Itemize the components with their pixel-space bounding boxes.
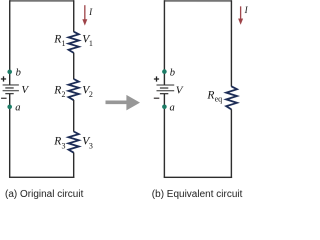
wire: right circuit top [164,0,231,2]
wire: left circuit top [10,0,74,2]
svg-text:I: I [88,7,93,17]
svg-text:R: R [53,34,61,46]
svg-text:2: 2 [62,90,66,99]
wire: right circuit right side below Req [230,109,232,178]
wire: right circuit left side lower [163,94,165,178]
battery minus sign (left) [1,97,7,99]
svg-text:1: 1 [62,39,66,48]
battery V (right): negative short plate upper [160,87,168,89]
wire: left circuit right side between R2 and R3 [73,100,75,132]
node a (left) [7,105,12,110]
resistor R1 [69,32,79,53]
battery plus sign (left) [1,76,6,81]
wire: right circuit bottom [164,176,232,178]
battery minus sign (right) [154,97,160,99]
wire: left circuit right side between R1 and R2 [73,53,75,79]
svg-text:a: a [15,102,20,113]
wire: left circuit right side above R1 [73,0,75,32]
svg-text:3: 3 [61,141,65,150]
current arrow I (left) [82,5,87,25]
wire: right circuit left side upper (to battery top plate) [163,0,165,85]
svg-text:R: R [53,85,61,97]
battery V (left): positive long plate lower [3,90,19,92]
current arrow I (right) [238,6,243,25]
svg-text:(b) Equivalent circuit: (b) Equivalent circuit [152,189,243,200]
svg-text:3: 3 [89,141,93,150]
svg-text:I: I [244,5,248,15]
svg-text:b: b [16,67,21,78]
resistor R3 [68,131,78,152]
battery plus sign (right) [154,76,159,81]
battery V (left): negative short plate upper [5,87,13,89]
node a (right) [162,105,167,110]
node b (left) [7,70,12,75]
wire: right circuit right side above Req [230,0,232,86]
equivalence arrow (gray) [105,95,140,111]
resistor Req [226,86,237,109]
svg-text:2: 2 [89,90,93,99]
battery V (right): positive long plate lower [157,90,175,92]
svg-text:R: R [53,136,61,148]
battery V (right): positive long plate top [157,84,175,86]
battery V (right): negative short plate bottom [160,93,168,95]
battery V (left): negative short plate bottom [5,93,13,95]
svg-text:V: V [21,84,29,96]
node b (right) [162,69,167,74]
svg-text:1: 1 [89,39,93,48]
svg-text:R: R [206,90,214,102]
wire: left circuit left side lower (battery bottom to bottom wire) [9,94,11,178]
svg-text:eq: eq [215,94,223,103]
battery V (left): positive long plate top [3,84,19,86]
wire: left circuit right side below R3 [73,152,75,178]
svg-text:V: V [176,85,184,97]
resistor R2 [69,79,79,100]
wire: left circuit bottom [9,176,74,178]
wire: left circuit left side upper (to battery top plate) [9,0,11,85]
svg-text:b: b [170,68,175,79]
svg-text:(a) Original circuit: (a) Original circuit [5,189,84,200]
svg-text:a: a [169,103,174,114]
